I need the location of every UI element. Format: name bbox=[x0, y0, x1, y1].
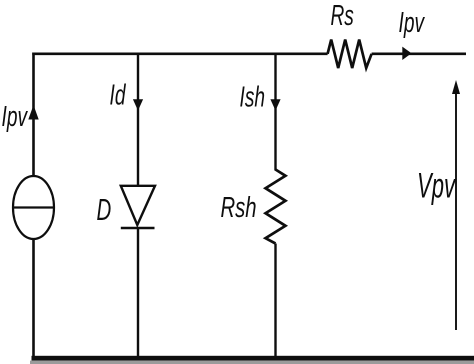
wire top bus right segment bbox=[372, 52, 466, 55]
resistor Rsh (vertical zigzag) bbox=[266, 170, 286, 244]
svg-text:D: D bbox=[97, 192, 112, 227]
wire top bus left segment bbox=[32, 52, 327, 55]
wire left branch lower (current source to bottom bus) bbox=[32, 239, 35, 358]
wire Vpv measurement line bbox=[455, 92, 457, 330]
wire diode branch upper bbox=[137, 53, 139, 187]
diode D cathode bar bbox=[121, 227, 155, 229]
arrow Vpv (up, right side) bbox=[452, 80, 460, 94]
svg-text:Ipv: Ipv bbox=[399, 7, 426, 39]
current source Ipv bbox=[13, 176, 54, 239]
wire Rsh branch lower bbox=[274, 244, 276, 359]
wire left branch upper (node A to current source) bbox=[32, 53, 35, 178]
resistor Rs bbox=[328, 40, 372, 68]
arrow Id (down) bbox=[133, 99, 143, 110]
wire diode branch lower bbox=[137, 228, 139, 358]
diode D (triangle) bbox=[121, 186, 155, 225]
wire bottom bus shadow bbox=[30, 361, 474, 364]
arrow Ish (down) bbox=[270, 99, 280, 110]
svg-text:Ipv: Ipv bbox=[2, 101, 29, 133]
arrow Ipv output (on top wire) bbox=[402, 47, 411, 60]
svg-text:Id: Id bbox=[110, 80, 127, 112]
wire bottom bus (thick) bbox=[32, 356, 474, 361]
svg-text:Ish: Ish bbox=[240, 82, 266, 114]
svg-text:Rsh: Rsh bbox=[221, 192, 257, 224]
arrow Ipv (current source direction, up) bbox=[28, 105, 38, 120]
svg-text:Vpv: Vpv bbox=[417, 168, 457, 206]
wire Rsh branch upper bbox=[274, 53, 276, 171]
svg-text:Rs: Rs bbox=[331, 0, 354, 32]
